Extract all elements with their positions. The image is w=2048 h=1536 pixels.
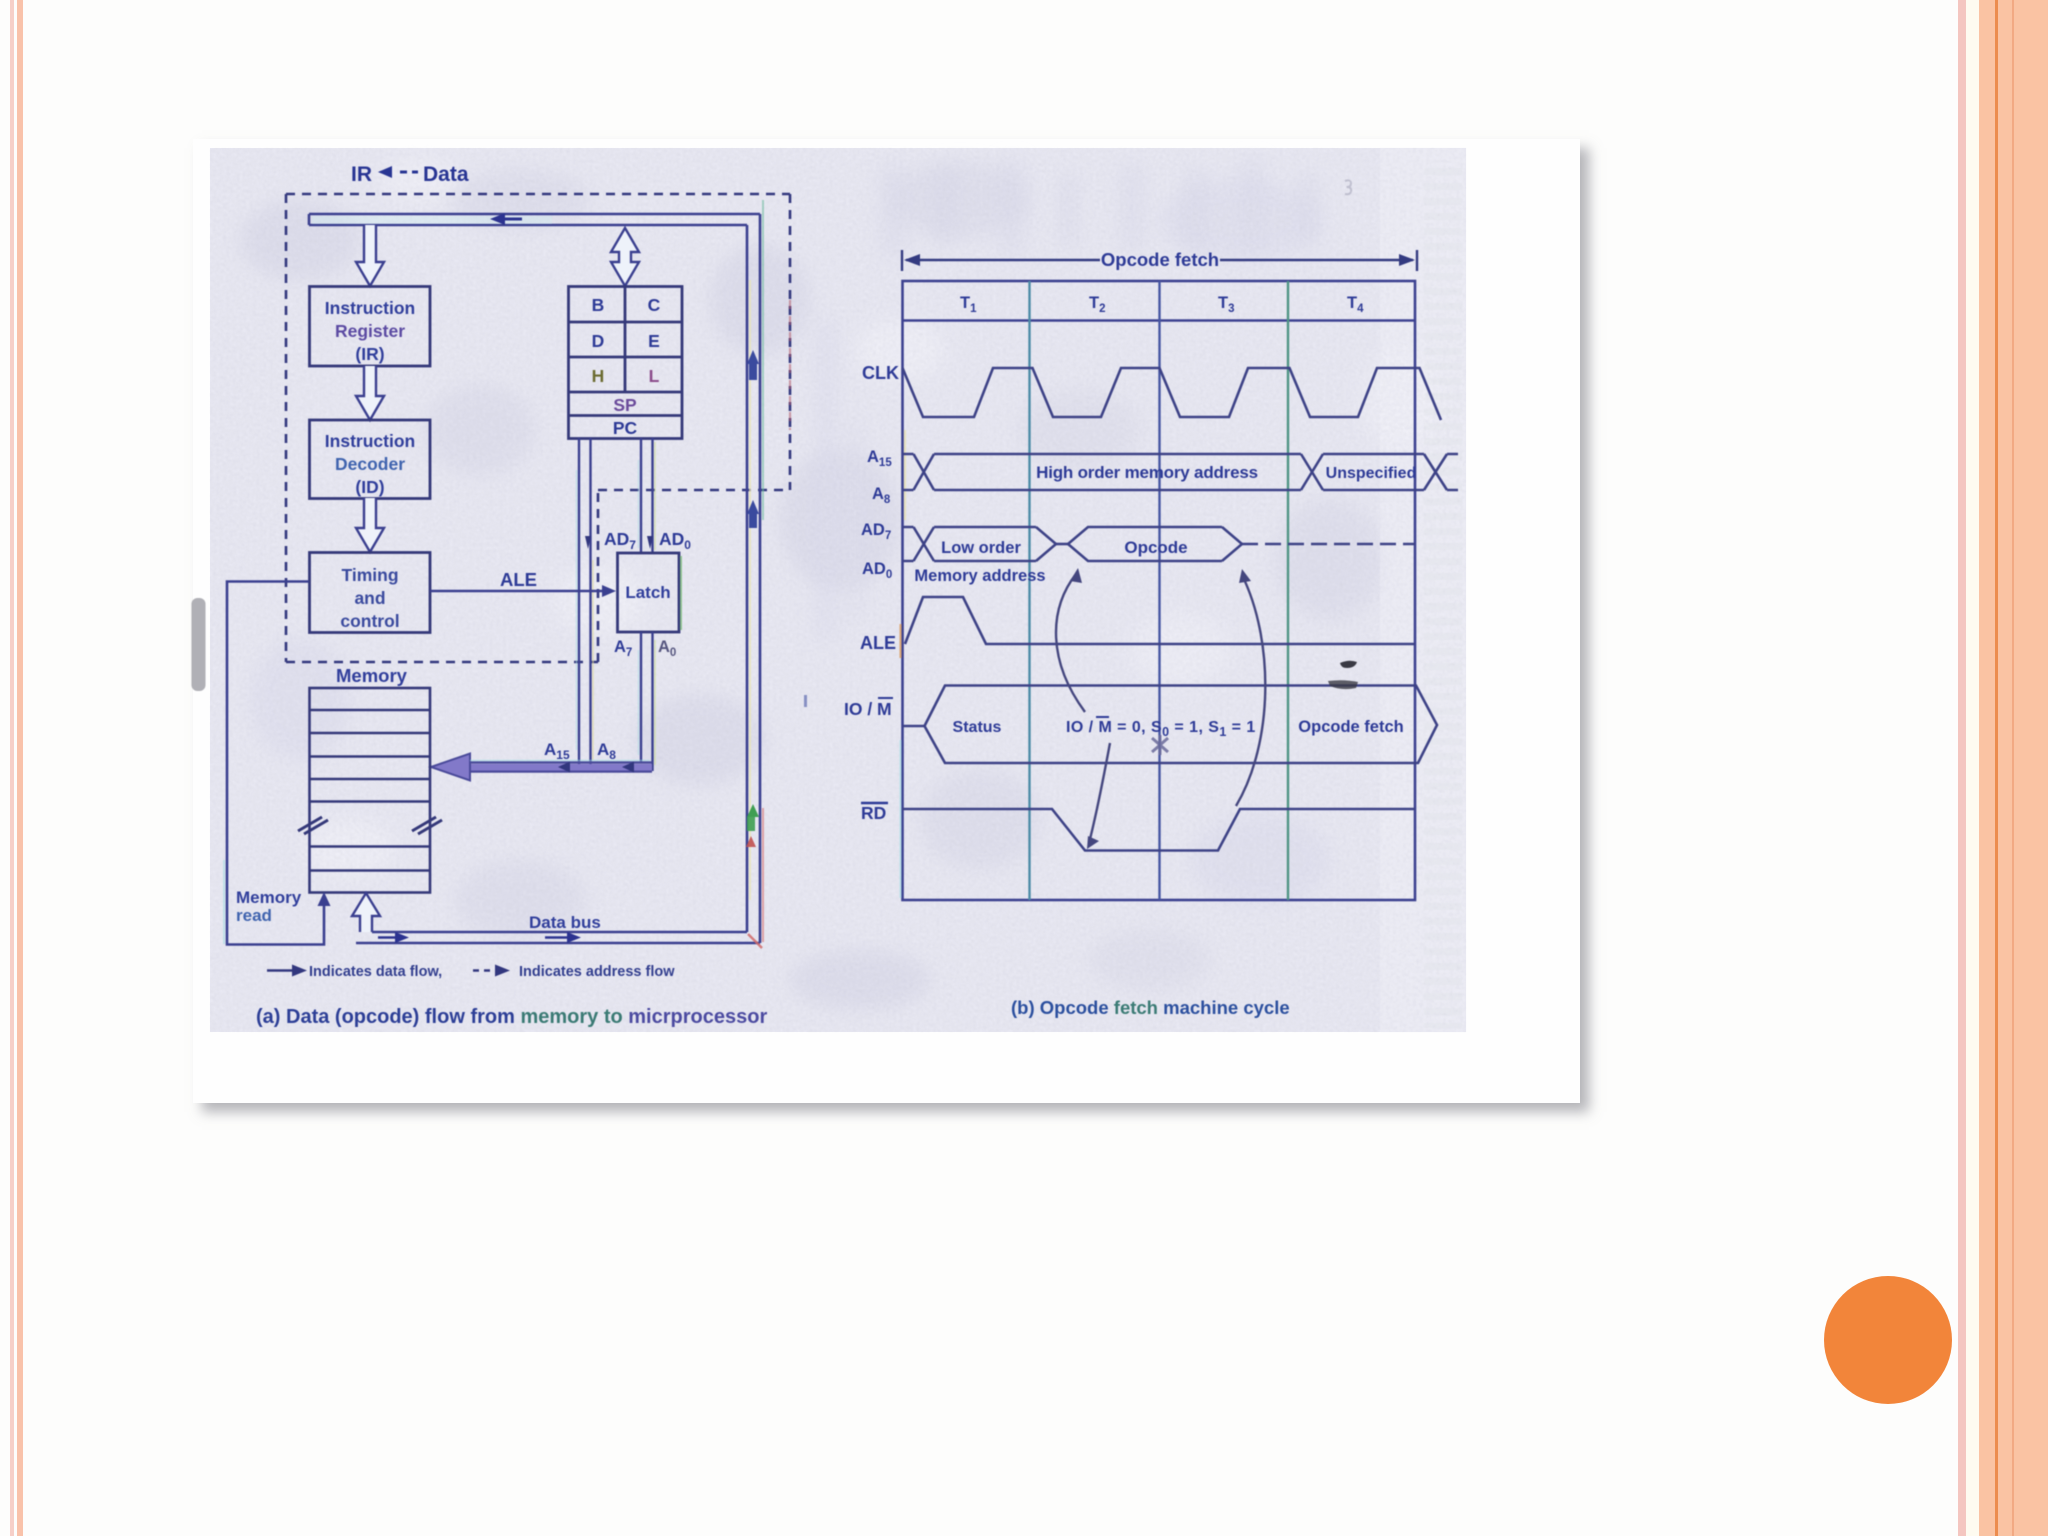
block: Timing and control [310, 553, 431, 633]
wire: right vertical bus risers [747, 214, 760, 943]
hollow double arrow: bus to register array [611, 228, 639, 286]
svg-text:A8: A8 [597, 740, 616, 762]
red fringe on right dashed edge [789, 300, 791, 430]
waveform: ALE [905, 597, 1415, 644]
scanned photo with drop shadow [193, 139, 1580, 1103]
T dividers [1030, 281, 1289, 900]
svg-text:A15: A15 [867, 448, 892, 469]
svg-text:H: H [592, 366, 605, 386]
label: Memory read [236, 888, 302, 925]
signal label: A15 / A8 [867, 448, 892, 506]
waveform: RD [903, 809, 1416, 851]
block: Instruction Decoder (ID) [310, 420, 431, 499]
fine grain over page [210, 148, 1466, 1032]
header: Opcode fetch measurement arrow [902, 250, 1417, 271]
right salmon band [1979, 0, 2048, 1536]
left salmon stripe [17, 0, 24, 1536]
flow arrows on data bus [378, 932, 581, 943]
wire: ALE line from timing control to latch [430, 585, 616, 597]
svg-text:Memory address: Memory address [914, 567, 1045, 585]
svg-text:Memory: Memory [336, 665, 408, 686]
hollow arrow: ID to Timing [356, 498, 384, 552]
svg-text:IR: IR [351, 163, 372, 186]
wire: address pair 1 (PC high byte) [579, 438, 591, 771]
svg-text:Low order: Low order [941, 539, 1021, 557]
svg-text:control: control [340, 611, 399, 631]
label: ALE [500, 569, 537, 590]
small down arrowheads (address flow) [585, 536, 653, 549]
left thin pink stripe [10, 0, 14, 1536]
svg-text:SP: SP [613, 395, 637, 415]
svg-text:AD7: AD7 [604, 529, 636, 552]
svg-text:Decoder: Decoder [335, 454, 405, 474]
waveform: CLK [903, 368, 1442, 420]
svg-text:T4: T4 [1347, 294, 1364, 315]
orange circle bottom right [1824, 1276, 1952, 1404]
svg-text:Instruction: Instruction [325, 298, 415, 318]
waveform: IO/M status hexagon [903, 686, 1438, 764]
label: AD7 AD0 [604, 529, 691, 552]
bleed-through text column at right edge of page [1424, 160, 1462, 1028]
svg-text:(ID): (ID) [355, 477, 384, 497]
svg-text:Data bus: Data bus [529, 913, 601, 932]
svg-text:Status: Status [953, 719, 1002, 736]
svg-text:RD: RD [861, 803, 886, 823]
svg-text:ALE: ALE [860, 633, 896, 653]
svg-text:AD0: AD0 [862, 560, 892, 581]
label: IR <-- Data [351, 163, 469, 186]
svg-text:T2: T2 [1089, 294, 1106, 315]
svg-text:A15: A15 [544, 740, 570, 762]
colored fringes on risers [750, 200, 763, 942]
svg-text:High order memory address: High order memory address [1036, 463, 1258, 482]
arrow from Data to IR (dashed, left-pointing) [378, 166, 418, 178]
wire: data bus (bottom, double line) [356, 932, 760, 943]
block: Instruction Register (IR) [310, 287, 431, 367]
right thin pink stripe [1958, 0, 1966, 1536]
svg-text:Indicates address flow: Indicates address flow [519, 964, 675, 980]
dashed CPU boundary box [286, 194, 790, 662]
signal label: ALE [860, 633, 896, 653]
svg-text:Opcode fetch: Opcode fetch [1298, 718, 1403, 736]
svg-text:D: D [592, 331, 605, 351]
scanned book page (lavender) [210, 148, 1466, 1032]
legend: address flow arrow [473, 965, 510, 977]
up arrows on risers [747, 350, 759, 528]
svg-text:PC: PC [613, 418, 638, 438]
soft vertical bleed smudges above timing diagram [815, 160, 1318, 640]
timing frame [903, 281, 1416, 900]
svg-text:Register: Register [335, 321, 405, 341]
legend: data flow arrow [267, 965, 307, 977]
internal data bus (top, double line) [309, 214, 760, 225]
handwritten asterisk [1152, 735, 1168, 755]
right-edge paleness of page [1380, 148, 1466, 1032]
svg-text:Unspecified: Unspecified [1326, 465, 1417, 482]
annotation arc left (to Opcode) [1056, 568, 1085, 712]
svg-text:CLK: CLK [862, 363, 899, 383]
wire: address pair 2 (latch) upper segment [641, 438, 653, 553]
right band subtle line 2 [2012, 0, 2014, 1536]
svg-text:Opcode: Opcode [1124, 538, 1187, 557]
block: Latch [618, 553, 682, 632]
grey smudge left page edge [192, 598, 206, 691]
wire: memory read control line [224, 582, 331, 945]
svg-text:Timing: Timing [341, 565, 398, 585]
label: A7 A0 below latch [614, 638, 676, 659]
T labels [960, 294, 1364, 315]
hollow arrow: data bus into memory bottom [352, 893, 380, 932]
signal label: RD (overline) [861, 803, 888, 823]
hollow arrow: IR to ID [356, 366, 384, 420]
signal label: AD7 / AD0 [861, 521, 892, 581]
signal label: CLK [862, 363, 899, 383]
svg-text:and: and [354, 588, 385, 608]
hollow arrow: bus to Instruction Register [356, 225, 384, 286]
svg-text:A0: A0 [658, 638, 676, 659]
right band dark orange line 1 [1995, 0, 1998, 1536]
colored fringes on frame left edge [901, 430, 906, 898]
svg-text:Instruction: Instruction [325, 431, 415, 451]
left-pointing flow arrow on bus [490, 213, 522, 225]
svg-text:E: E [648, 331, 660, 351]
svg-text:(IR): (IR) [355, 344, 384, 364]
small left arrowheads on address bus [558, 762, 634, 773]
wire: address bus into memory (thick purple arrow) [431, 754, 652, 781]
annotation arc right (to Opcode) [1236, 569, 1265, 806]
svg-text:C: C [648, 295, 661, 315]
svg-text:Memory: Memory [236, 888, 302, 907]
svg-text:(b) Opcode fetch machine cycle: (b) Opcode fetch machine cycle [1011, 997, 1290, 1018]
annotation arc small (to RD low edge) [1087, 743, 1110, 849]
svg-text:(a) Data (opcode) flow from me: (a) Data (opcode) flow from memory to mi… [256, 1006, 767, 1028]
caption (a) [256, 1006, 767, 1028]
memory break marks (//) [298, 817, 442, 834]
right cream gap [1966, 0, 1979, 1536]
waveform: A15-A8 address bus [903, 454, 1459, 490]
svg-text:Indicates data flow,: Indicates data flow, [309, 964, 442, 980]
block: memory with rows [310, 688, 431, 893]
svg-text:AD0: AD0 [659, 529, 691, 552]
faint mark above frame [1345, 180, 1351, 194]
signal label: IO/M [844, 698, 893, 719]
svg-text:Latch: Latch [625, 583, 670, 602]
waveform: AD7-AD0 bus [903, 527, 1416, 561]
red corner fringe [748, 934, 762, 948]
wire: address pair 2 lower segment [641, 632, 653, 771]
tiny stray mark between diagrams [804, 695, 807, 707]
svg-text:Data: Data [423, 163, 469, 186]
block: register array B C D E H L SP PC [569, 287, 683, 439]
svg-text:ALE: ALE [500, 569, 537, 590]
svg-text:B: B [592, 295, 605, 315]
svg-text:A7: A7 [614, 638, 632, 659]
page mottling blotches [240, 158, 1440, 1010]
svg-text:T3: T3 [1218, 294, 1235, 315]
svg-text:Opcode fetch: Opcode fetch [1101, 249, 1219, 270]
svg-text:T1: T1 [960, 294, 977, 315]
svg-text:read: read [236, 906, 272, 925]
label: A15 A8 [544, 740, 616, 762]
caption (b) [1011, 997, 1290, 1018]
label: Memory [336, 665, 408, 686]
pen marks [1328, 661, 1358, 689]
cyan wash inside top bus [312, 216, 552, 224]
svg-text:IO / M: IO / M [844, 699, 892, 719]
label: Data bus [529, 913, 601, 932]
svg-text:L: L [649, 366, 660, 386]
